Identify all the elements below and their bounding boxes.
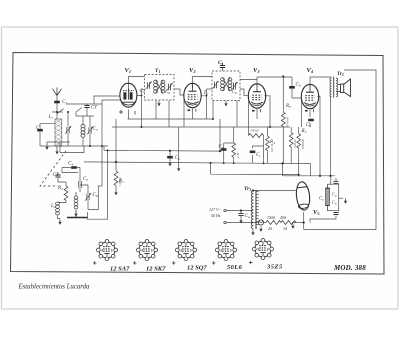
svg-text:R3: R3 [285,104,291,109]
svg-text:V5: V5 [313,209,320,216]
svg-text:Ca: Ca [175,156,180,161]
svg-text:MOD. 388: MOD. 388 [333,264,366,272]
svg-text:Cb: Cb [332,200,337,206]
svg-text:R5: R5 [301,129,307,134]
svg-text:Cr: Cr [256,153,261,158]
svg-text:12 SA7: 12 SA7 [110,266,130,273]
svg-text:35Z5: 35Z5 [266,264,283,271]
svg-text:Tr1: Tr1 [244,186,251,192]
svg-text:C5: C5 [83,177,88,182]
svg-text:V2: V2 [189,67,196,74]
svg-text:10000: 10000 [118,177,122,186]
svg-text:C3: C3 [93,127,98,132]
svg-text:50000: 50000 [250,129,259,133]
svg-text:Cb: Cb [296,83,301,88]
svg-text:Establecimientos Lucarda: Establecimientos Lucarda [18,284,91,291]
svg-text:50 Hz: 50 Hz [211,213,221,218]
svg-text:12 SK7: 12 SK7 [146,266,166,273]
svg-text:C8: C8 [165,90,170,95]
svg-text:C7: C7 [140,89,145,94]
svg-text:2 M: 2 M [236,152,240,158]
svg-text:Tr2: Tr2 [337,72,344,77]
svg-text:Ca: Ca [332,192,337,198]
svg-text:Cs: Cs [319,197,324,202]
svg-text:L1: L1 [48,115,54,120]
svg-text:20: 20 [268,226,272,231]
svg-text:C4: C4 [68,162,73,167]
svg-text:Ca: Ca [245,214,250,219]
svg-text:C1: C1 [62,100,67,105]
svg-text:127 V~: 127 V~ [209,207,221,212]
svg-text:Cs: Cs [218,60,224,66]
svg-text:C6: C6 [93,193,98,198]
svg-text:470000: 470000 [286,117,290,127]
svg-text:12 SQ7: 12 SQ7 [187,265,207,272]
svg-text:250000: 250000 [301,139,305,149]
svg-text:T1: T1 [155,68,160,74]
svg-text:1500: 1500 [267,215,275,220]
svg-text:Ca: Ca [219,145,224,150]
svg-text:L2: L2 [50,204,56,209]
svg-text:T2: T2 [204,91,209,96]
svg-text:V3: V3 [253,67,260,74]
svg-text:V1: V1 [125,67,132,74]
svg-text:50L6: 50L6 [227,264,243,271]
svg-text:34: 34 [283,226,287,231]
svg-text:50000: 50000 [293,139,297,148]
svg-text:C2: C2 [36,126,41,131]
svg-text:450: 450 [280,215,286,220]
svg-text:V4: V4 [307,67,314,74]
svg-text:C9: C9 [232,90,237,95]
svg-text:R2: R2 [57,186,63,191]
svg-text:Ck: Ck [306,123,311,128]
